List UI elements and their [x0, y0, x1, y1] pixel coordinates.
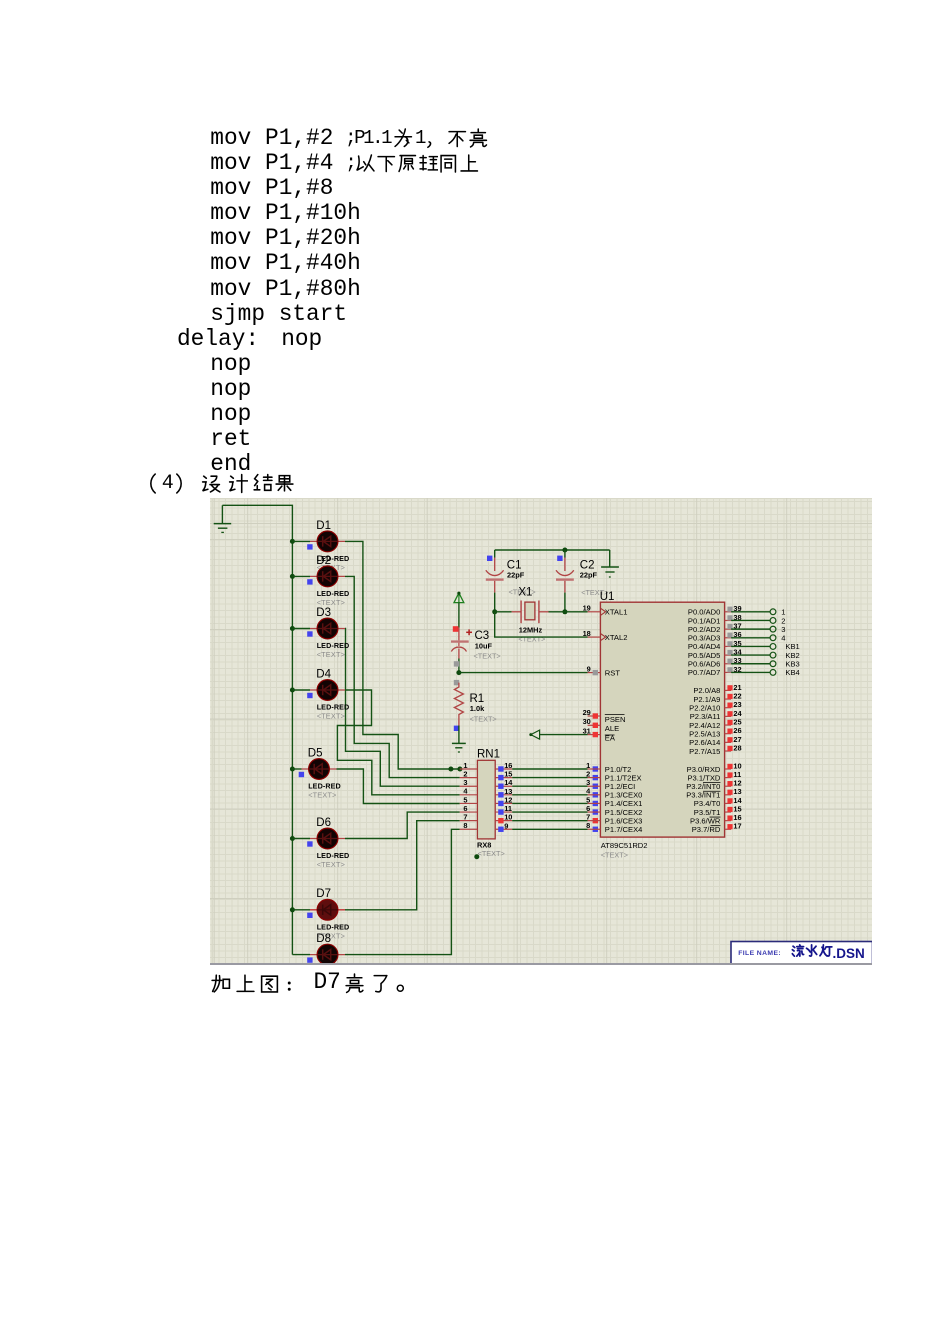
svg-text:KB3: KB3: [785, 660, 799, 669]
wire P0.0 to terminal 1: [731, 611, 770, 613]
RN1 left pin 7: [460, 813, 478, 822]
svg-text:FILE NAME:: FILE NAME:: [738, 950, 781, 957]
label P3.5/T1: [694, 808, 721, 817]
wire RN1-14 to U1 P1.2: [512, 785, 587, 787]
svg-text:P0.1/AD1: P0.1/AD1: [688, 616, 721, 625]
label 10uF: [475, 641, 493, 650]
svg-text:P0.2/AD2: P0.2/AD2: [688, 625, 721, 634]
svg-text:RST: RST: [605, 668, 621, 677]
svg-text:1: 1: [781, 608, 785, 617]
label D6: [316, 817, 331, 829]
label P1.3/CEX0: [605, 791, 643, 800]
wire RN1-12 to U1 P1.4: [512, 802, 587, 804]
svg-text:P3.7/RD: P3.7/RD: [692, 825, 721, 834]
U1 pin 3 P1.2 stub: [588, 785, 601, 787]
label <TEXT> (X1): [518, 635, 545, 644]
svg-text:R1: R1: [470, 693, 485, 705]
svg-text:22pF: 22pF: [507, 570, 525, 579]
svg-text:P2.2/A10: P2.2/A10: [689, 704, 720, 713]
wire D1 to RN1 pin1: [345, 541, 460, 769]
terminal 3: [770, 626, 776, 632]
svg-text:ALE: ALE: [605, 724, 619, 733]
svg-text:RN1: RN1: [477, 749, 500, 761]
voltage marker square C3-1: [454, 661, 459, 666]
svg-text:D4: D4: [316, 668, 331, 680]
label terminal 1: [781, 608, 785, 617]
LED D5: [292, 759, 336, 780]
RN1 left pin 1: [460, 761, 478, 770]
node C1 bottom: [492, 609, 497, 614]
U1 pin 19 XTAL1: [583, 604, 606, 616]
svg-text:<TEXT>: <TEXT>: [317, 598, 345, 607]
svg-text:AT89C51RD2: AT89C51RD2: [601, 841, 648, 850]
label X1: [518, 586, 532, 598]
label P2.3/A11: [690, 712, 721, 721]
label C1: [507, 559, 522, 571]
svg-text:P0.5/AD5: P0.5/AD5: [688, 651, 721, 660]
ground (top-right): [601, 550, 619, 577]
label LED-RED (D6): [317, 851, 350, 860]
svg-text:D5: D5: [308, 747, 323, 759]
label terminal KB1: [785, 642, 799, 651]
node RN1 pin1 b: [457, 767, 462, 772]
U1 pin 21 P2.0: [725, 683, 742, 692]
label LED-RED (D8): [317, 967, 350, 976]
svg-text:8: 8: [463, 821, 467, 830]
U1 pin 10 P3.0: [725, 761, 742, 770]
U1 pin 25 P2.4: [725, 717, 742, 726]
terminal KB4: [770, 670, 776, 676]
svg-text:18: 18: [583, 629, 591, 638]
wire P0.4 to terminal KB1: [731, 645, 770, 647]
label <TEXT> (D1): [317, 563, 345, 572]
svg-text:LED-RED: LED-RED: [317, 703, 350, 712]
U1 pin 9 RST: [587, 664, 601, 675]
svg-text:U1: U1: [600, 591, 615, 603]
U1 pin 7 marker: [586, 813, 598, 824]
U1 pin 18 XTAL2: [583, 629, 606, 641]
svg-text:KB1: KB1: [785, 642, 799, 651]
label P3.1/TXD: [687, 773, 720, 782]
svg-text:XTAL1: XTAL1: [605, 608, 628, 617]
RN1 right pin 12: [495, 795, 512, 806]
U1 pin 27 P2.6: [725, 735, 742, 744]
label P2.0/A8: [693, 686, 720, 695]
svg-text:LED-RED: LED-RED: [317, 589, 350, 598]
label D1: [316, 520, 331, 532]
svg-text:<TEXT>: <TEXT>: [308, 791, 336, 800]
wire EA terminal: [531, 734, 587, 736]
label P3.6/WR: [690, 816, 721, 825]
LED D3: [292, 618, 345, 639]
label D4: [316, 668, 331, 680]
node bus-D4: [290, 688, 295, 693]
label P3.2/INT0: [686, 782, 720, 791]
svg-text:29: 29: [583, 708, 591, 717]
svg-text:LED-RED: LED-RED: [317, 851, 350, 860]
U1 pin 28 P2.7: [725, 743, 742, 752]
label P0.6/AD6: [688, 660, 721, 669]
wire D5 to RN1 pin5: [337, 769, 460, 804]
label terminal 3: [781, 625, 785, 634]
RN1 right pin 15: [495, 770, 512, 781]
wire top-left to LED bus: [222, 505, 292, 541]
svg-text:22pF: 22pF: [580, 570, 598, 579]
capacitor C2: [556, 550, 574, 612]
label <TEXT> (D5): [308, 791, 336, 800]
ground (R1): [452, 743, 466, 752]
label P1.1/T2EX: [605, 773, 642, 782]
logic-state square D7: [307, 913, 312, 918]
svg-text:<TEXT>: <TEXT>: [478, 849, 505, 858]
RN1 right pin 14: [495, 778, 513, 789]
label <TEXT> (U1): [601, 851, 628, 860]
label <TEXT> (C2): [581, 588, 608, 597]
label P2.1/A9: [693, 695, 720, 704]
svg-text:9: 9: [504, 821, 508, 830]
logic-state square C3-top: [453, 626, 459, 632]
svg-text:<TEXT>: <TEXT>: [317, 712, 345, 721]
RN1 left pin 4: [460, 787, 478, 796]
label P2.5/A13: [689, 730, 720, 739]
node below RX8: [474, 854, 479, 859]
label 12MHz: [519, 625, 543, 634]
label R1: [470, 693, 485, 705]
node bus-D2: [290, 574, 295, 579]
wire D4 to RN1 pin4: [337, 690, 459, 795]
U1 pin 33 P0.6: [725, 656, 742, 665]
label P3.4/T0: [694, 799, 721, 808]
label <TEXT> (D4): [317, 712, 345, 721]
U1 pin 22 P2.1: [725, 691, 742, 700]
label P1.5/CEX2: [605, 808, 643, 817]
logic-state square D8: [307, 957, 312, 962]
svg-text:24: 24: [733, 709, 742, 718]
label PSEN: [605, 715, 626, 724]
label P2.4/A12: [689, 721, 720, 730]
label P1.4/CEX1: [605, 799, 643, 808]
U1 pin 12 P3.2: [725, 779, 742, 788]
node bus-D5: [290, 767, 295, 772]
svg-text:KB2: KB2: [785, 651, 799, 660]
svg-text:21: 21: [733, 683, 741, 692]
svg-text:D2: D2: [316, 555, 331, 567]
svg-text:D6: D6: [316, 817, 331, 829]
svg-text:19: 19: [583, 604, 591, 613]
svg-text:<TEXT>: <TEXT>: [317, 860, 345, 869]
logic-state square C1: [487, 556, 492, 561]
U1 pin 8 marker: [586, 821, 598, 832]
node bus-D6: [290, 836, 295, 841]
label EA: [605, 733, 616, 742]
label D3: [316, 607, 331, 619]
label terminal KB3: [785, 660, 799, 669]
U1 pin 37 P0.2: [725, 622, 742, 631]
wire C3 to RST: [459, 672, 588, 674]
svg-text:KB4: KB4: [785, 668, 799, 677]
LED D1: [292, 531, 345, 552]
label XTAL1: [605, 608, 628, 617]
RN1 left pin 6: [460, 804, 478, 813]
logic-state square D5: [299, 772, 304, 777]
label C3: [475, 630, 490, 642]
label P3.3/INT1: [686, 791, 720, 800]
U1 pin 35 P0.4: [725, 639, 742, 648]
svg-text:<TEXT>: <TEXT>: [474, 652, 501, 661]
U1 pin 7 P1.6 stub: [588, 820, 601, 822]
node C3-R1: [456, 670, 461, 675]
RN1 right pin 16: [495, 761, 512, 772]
RN1 right pin 11: [495, 804, 512, 815]
svg-text:XTAL2: XTAL2: [605, 633, 628, 642]
U1 pin 2 P1.1 stub: [588, 777, 601, 779]
label LED-RED (D7): [317, 922, 350, 931]
label P1.2/ECI: [605, 782, 635, 791]
U1 pin 3 marker: [586, 778, 598, 789]
terminal arrow (EA): [529, 730, 539, 739]
label P3.7/RD: [692, 825, 721, 834]
svg-text:P2.4/A12: P2.4/A12: [689, 721, 720, 730]
logic-state square D6: [307, 841, 312, 846]
svg-text:P0.0/AD0: P0.0/AD0: [688, 608, 721, 617]
wire RN1-10 to U1 P1.6: [512, 820, 587, 822]
wire P0.1 to terminal 2: [731, 619, 770, 621]
voltage marker square C3-2: [454, 680, 459, 685]
label <TEXT> (D8): [317, 976, 345, 985]
svg-text:P0.6/AD6: P0.6/AD6: [688, 660, 721, 669]
label P2.2/A10: [689, 704, 720, 713]
label P1.7/CEX4: [605, 825, 643, 834]
label AT89C51RD2: [601, 841, 648, 850]
label LED-RED (D1): [317, 554, 350, 563]
svg-text:D7: D7: [316, 888, 331, 900]
U1 pin 4 P1.3 stub: [588, 794, 601, 796]
svg-text:LED-RED: LED-RED: [308, 782, 341, 791]
U1 pin 36 P0.3: [725, 630, 742, 639]
label RST: [605, 668, 621, 677]
LED D8: [292, 944, 345, 965]
svg-text:27: 27: [733, 735, 741, 744]
svg-text:26: 26: [733, 726, 741, 735]
U1 pin 23 P2.2: [725, 700, 742, 709]
U1 pin 16 P3.6: [725, 813, 742, 822]
U1 pin 14 P3.4: [725, 796, 743, 805]
svg-text:1.0k: 1.0k: [470, 704, 485, 713]
U1 pin 29 PSEN: [583, 708, 601, 719]
wire D7 to RN1 pin7: [345, 821, 460, 910]
svg-text:<TEXT>: <TEXT>: [470, 714, 497, 723]
svg-text:4: 4: [781, 634, 785, 643]
label D2: [316, 555, 331, 567]
svg-text:10uF: 10uF: [475, 641, 493, 650]
title block FILE NAME 流水灯.DSN: [731, 942, 873, 967]
label ALE: [605, 724, 619, 733]
label P0.0/AD0: [688, 608, 721, 617]
wire P0.3 to terminal 4: [731, 637, 770, 639]
label <TEXT> (D7): [317, 931, 345, 940]
LED D4: [292, 680, 345, 701]
wire to XTAL1: [565, 611, 588, 613]
U1 pin 39 P0.0: [725, 604, 742, 613]
logic-state square D3: [307, 631, 312, 636]
svg-text:LED-RED: LED-RED: [317, 922, 350, 931]
label <TEXT> (R1): [470, 714, 497, 723]
capacitor C1: [486, 550, 504, 612]
svg-text:25: 25: [733, 717, 741, 726]
svg-text:PSEN: PSEN: [605, 715, 626, 724]
wire RN1-13 to U1 P1.3: [512, 794, 587, 796]
label LED-RED (D5): [308, 782, 341, 791]
terminal 4: [770, 635, 776, 641]
svg-text:9: 9: [587, 664, 591, 673]
label D8: [316, 933, 331, 945]
terminal KB1: [770, 644, 776, 650]
RN1 right pin 10: [495, 813, 512, 824]
label terminal KB4: [785, 668, 799, 677]
label <TEXT> (C1): [509, 588, 536, 597]
wire crystal to C2: [549, 611, 565, 613]
label <TEXT> (D2): [317, 598, 345, 607]
crystal X1: [512, 601, 549, 624]
terminal KB2: [770, 652, 776, 658]
LED D6: [292, 828, 345, 849]
label D7: [316, 888, 331, 900]
node C2 top: [562, 548, 567, 553]
RN1 left pin 2: [460, 770, 478, 779]
svg-text:D8: D8: [316, 933, 331, 945]
U1 pin 13 P3.3: [725, 787, 742, 796]
label <TEXT> (RN1): [478, 849, 505, 858]
logic-state square D1: [307, 544, 312, 549]
label P3.0/RXD: [687, 765, 721, 774]
U1 pin 6 marker: [586, 804, 598, 815]
RN1 right pin 9: [495, 821, 512, 832]
svg-text:28: 28: [733, 743, 741, 752]
svg-text:P2.6/A14: P2.6/A14: [689, 738, 720, 747]
U1 pin 6 P1.5 stub: [588, 811, 601, 813]
svg-text:P0.4/AD4: P0.4/AD4: [688, 642, 721, 651]
label LED-RED (D2): [317, 589, 350, 598]
label 22pF (C1): [507, 570, 525, 579]
ground (top-left): [214, 505, 232, 532]
label P0.2/AD2: [688, 625, 721, 634]
microcontroller U1 body: [600, 602, 724, 837]
svg-text:.DSN: .DSN: [833, 946, 865, 961]
label terminal KB2: [785, 651, 799, 660]
LED D7: [292, 899, 345, 920]
svg-text:<TEXT>: <TEXT>: [317, 650, 345, 659]
logic-state square D4: [307, 693, 312, 698]
resistor network RN1: [477, 760, 495, 839]
wire D3 to RN1 pin3: [345, 629, 460, 787]
svg-text:<TEXT>: <TEXT>: [601, 851, 628, 860]
U1 pin 5 marker: [586, 795, 598, 806]
label + (C3): [466, 629, 472, 635]
label terminal 4: [781, 634, 785, 643]
svg-text:C3: C3: [475, 630, 490, 642]
wire C1-top to ground: [495, 549, 610, 551]
svg-text:30: 30: [583, 717, 591, 726]
U1 pin 17 P3.7: [725, 822, 742, 831]
capacitor C3 (electrolytic): [451, 628, 469, 673]
wire C1 down to XTAL2: [495, 612, 588, 637]
wire P0.2 to terminal 3: [731, 628, 770, 630]
wire D8 to RN1 pin8: [345, 829, 460, 954]
RN1 left pin 5: [460, 795, 478, 804]
label D5: [308, 747, 323, 759]
svg-text:3: 3: [781, 625, 785, 634]
label 1.0k: [470, 704, 485, 713]
label P0.3/AD3: [688, 634, 721, 643]
label XTAL2: [605, 633, 628, 642]
wire C1 to crystal: [495, 611, 512, 613]
wire P0.5 to terminal KB2: [731, 654, 770, 656]
U1 pin 32 P0.7: [725, 665, 742, 674]
wire D2 to RN1 pin2: [345, 576, 460, 777]
label P0.7/AD7: [688, 668, 721, 677]
label P2.6/A14: [689, 738, 720, 747]
label 22pF (C2): [580, 570, 598, 579]
node bus-D3: [290, 626, 295, 631]
label <TEXT> (D6): [317, 860, 345, 869]
wire LED cathode bus: [291, 541, 293, 954]
U1 pin 38 P0.1: [725, 613, 742, 622]
U1 pin 30 ALE: [583, 717, 601, 728]
wire RN1-11 to U1 P1.5: [512, 811, 587, 813]
U1 pin 8 P1.7 stub: [588, 828, 601, 830]
label P0.5/AD5: [688, 651, 721, 660]
node bus-D7: [290, 907, 295, 912]
wire P0.6 to terminal KB3: [731, 663, 770, 665]
svg-text:P2.1/A9: P2.1/A9: [693, 695, 720, 704]
terminal KB3: [770, 661, 776, 667]
node bus-D1: [290, 539, 295, 544]
U1 pin 4 marker: [586, 787, 598, 798]
label P0.1/AD1: [688, 616, 721, 625]
U1 pin 11 P3.1: [725, 770, 742, 779]
wire RN1-16 to U1 P1.0: [512, 768, 587, 770]
logic-state square R1: [454, 726, 459, 731]
svg-text:P2.7/A15: P2.7/A15: [689, 747, 720, 756]
node RN1 pin1 a: [448, 767, 453, 772]
U1 pin 1 marker: [586, 761, 598, 772]
wire P0.7 to terminal KB4: [731, 671, 770, 673]
svg-text:X1: X1: [518, 586, 532, 598]
U1 pin 31 EA: [583, 726, 601, 737]
wire R1 to ground: [458, 726, 460, 744]
U1 pin 26 P2.5: [725, 726, 742, 735]
resistor R1: [454, 683, 463, 726]
bottom window edge: [210, 963, 872, 965]
logic-state square D2: [307, 579, 312, 584]
U1 pin 5 P1.4 stub: [588, 802, 601, 804]
svg-text:23: 23: [733, 700, 741, 709]
label RN1: [477, 749, 500, 761]
label RX8: [477, 840, 491, 849]
node C2 bottom: [562, 609, 567, 614]
wire RN1-9 to U1 P1.7: [512, 828, 587, 830]
U1 pin 1 P1.0 stub: [588, 768, 601, 770]
svg-text:P2.5/A13: P2.5/A13: [689, 730, 720, 739]
power terminal (VCC arrow): [454, 592, 464, 603]
svg-text:P2.3/A11: P2.3/A11: [690, 712, 721, 721]
label P2.7/A15: [689, 747, 720, 756]
terminal 1: [770, 609, 776, 615]
svg-text:LED-RED: LED-RED: [317, 641, 350, 650]
svg-text:12MHz: 12MHz: [519, 625, 543, 634]
RN1 right pin 13: [495, 787, 512, 798]
svg-text:P0.7/AD7: P0.7/AD7: [688, 668, 721, 677]
